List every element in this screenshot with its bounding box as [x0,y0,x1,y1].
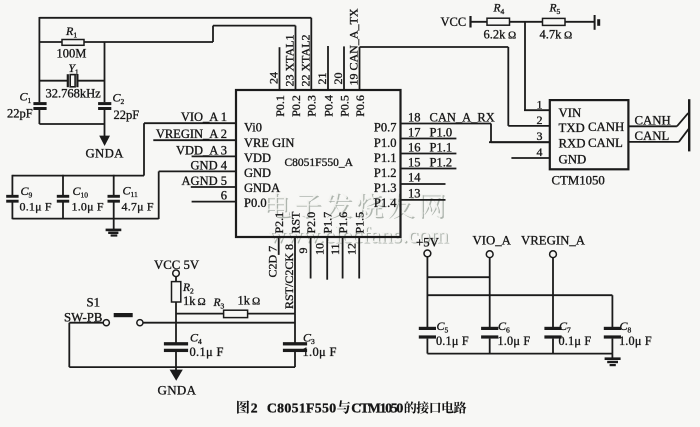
svg-text:GND: GND [559,153,587,167]
svg-text:4.7μ F: 4.7μ F [122,200,154,214]
svg-text:4: 4 [537,145,543,159]
svg-text:P0.4: P0.4 [321,95,335,117]
svg-text:C8051F550_A: C8051F550_A [285,157,354,169]
svg-text:P0.6: P0.6 [353,95,367,117]
svg-text:VRE GIN: VRE GIN [244,136,294,150]
svg-text:VREGIN_A 2: VREGIN_A 2 [156,127,227,141]
svg-text:22pF: 22pF [7,107,33,121]
svg-text:GND: GND [244,166,271,180]
svg-text:CANH: CANH [588,120,624,134]
svg-text:22pF: 22pF [114,108,140,122]
svg-text:13: 13 [408,186,421,200]
svg-text:GNDA: GNDA [244,181,280,195]
svg-text:6.2k: 6.2k [484,28,507,42]
svg-text:23 XTAL1: 23 XTAL1 [283,34,297,86]
svg-text:CANL: CANL [635,129,670,143]
svg-text:1.0μ F: 1.0μ F [619,334,652,348]
svg-text:P2.0: P2.0 [304,212,318,234]
svg-text:100M: 100M [57,47,87,61]
svg-text:P1.0: P1.0 [430,125,453,139]
svg-text:P2.1: P2.1 [272,212,286,234]
svg-text:VCC 5V: VCC 5V [154,258,200,272]
svg-text:+5V: +5V [416,236,440,250]
svg-text:2: 2 [537,113,543,127]
svg-text:VIO_A: VIO_A [473,234,512,248]
svg-text:0.1μ F: 0.1μ F [559,334,592,348]
svg-text:CANH: CANH [635,113,671,127]
svg-text:17: 17 [408,125,421,139]
svg-text:10: 10 [312,243,326,255]
svg-text:C2D 7: C2D 7 [266,246,280,278]
svg-text:15: 15 [408,155,421,169]
svg-text:TXD: TXD [559,121,585,135]
svg-text:VCC: VCC [441,15,467,29]
svg-text:Vi0: Vi0 [244,121,262,135]
svg-text:14: 14 [408,170,421,184]
svg-text:11: 11 [328,243,342,255]
svg-text:P1.2: P1.2 [374,166,397,180]
svg-text:S1: S1 [87,296,101,310]
svg-text:VIO_A 1: VIO_A 1 [181,110,227,124]
svg-text:6: 6 [221,189,227,203]
svg-text:32.768kHz: 32.768kHz [46,87,102,101]
svg-text:P1.5: P1.5 [353,212,367,234]
svg-text:RST/C2CK 8: RST/C2CK 8 [282,244,296,309]
svg-text:1: 1 [537,97,543,111]
svg-text:1.0μ F: 1.0μ F [498,334,531,348]
svg-text:0.1μ F: 0.1μ F [190,345,224,359]
svg-text:C8051F550: C8051F550 [267,400,336,415]
svg-text:1k: 1k [183,294,196,308]
svg-text:CANL: CANL [588,136,623,150]
svg-text:24: 24 [266,72,280,84]
svg-text:P0.5: P0.5 [337,95,351,117]
svg-text:RST: RST [288,211,302,234]
svg-text:P1.0: P1.0 [374,136,397,150]
svg-text:9: 9 [296,248,310,254]
svg-text:P0.0: P0.0 [244,196,267,210]
svg-text:4.7k: 4.7k [540,28,563,42]
svg-text:CAN_A_RX: CAN_A_RX [430,110,495,124]
svg-text:P0.3: P0.3 [305,95,319,117]
svg-text:P1.1: P1.1 [430,140,453,154]
svg-text:Ω: Ω [564,30,572,42]
svg-text:AGND 5: AGND 5 [182,174,227,188]
svg-text:20: 20 [331,73,345,85]
svg-text:1.0μ F: 1.0μ F [303,345,337,359]
svg-text:GNDA: GNDA [86,147,125,161]
svg-text:P0.7: P0.7 [374,121,397,135]
svg-text:3: 3 [537,129,543,143]
svg-text:Ω: Ω [198,296,206,308]
svg-text:P1.2: P1.2 [430,155,453,169]
svg-text:P1.3: P1.3 [374,181,397,195]
svg-text:GNDA: GNDA [158,383,197,398]
svg-text:22 XTAL2: 22 XTAL2 [298,34,312,86]
svg-text:VDD_A 3: VDD_A 3 [176,143,227,157]
svg-text:GND 4: GND 4 [191,158,228,172]
svg-text:1k: 1k [238,294,251,308]
svg-text:RXD: RXD [559,137,586,151]
svg-text:VIN: VIN [559,106,582,120]
svg-text:P0.2: P0.2 [289,95,303,117]
svg-text:1.0μ F: 1.0μ F [72,200,104,214]
svg-text:VREGIN_A: VREGIN_A [521,234,586,248]
svg-text:12: 12 [344,243,358,255]
svg-text:21: 21 [315,73,329,85]
svg-text:P1.4: P1.4 [374,196,397,210]
svg-text:CTM1050: CTM1050 [351,400,403,415]
svg-text:0.1μ F: 0.1μ F [436,334,469,348]
svg-text:P0.1: P0.1 [273,95,287,117]
svg-text:18: 18 [408,110,421,124]
svg-text:SW-PB: SW-PB [64,311,102,325]
svg-text:19 CAN_A_TX: 19 CAN_A_TX [346,8,360,85]
svg-text:2: 2 [251,400,258,415]
svg-text:Ω: Ω [252,296,260,308]
svg-text:CTM1050: CTM1050 [552,174,605,188]
svg-text:P1.1: P1.1 [374,151,397,165]
svg-text:0.1μ F: 0.1μ F [20,200,52,214]
svg-text:P1.7: P1.7 [321,212,335,234]
svg-text:P1.6: P1.6 [336,212,350,234]
svg-text:VDD: VDD [244,151,271,165]
svg-text:16: 16 [408,140,421,154]
svg-text:Ω: Ω [508,30,516,42]
